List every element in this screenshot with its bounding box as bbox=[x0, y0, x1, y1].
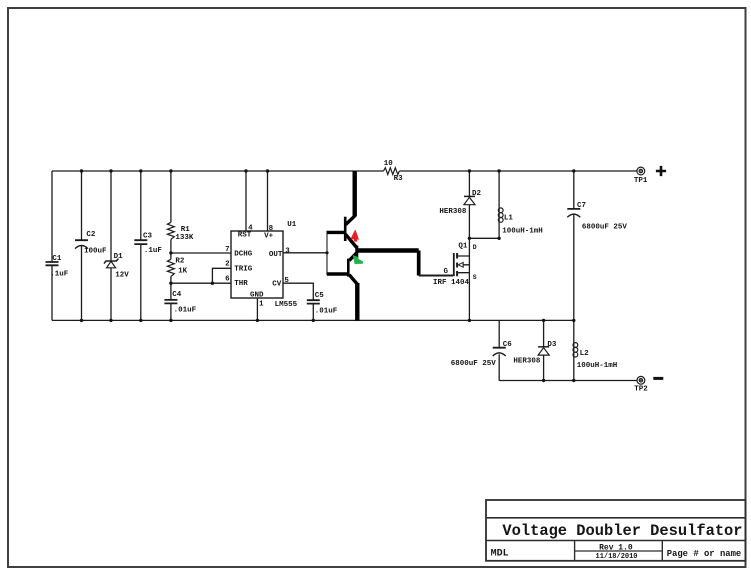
svg-text:Q1: Q1 bbox=[458, 242, 468, 250]
svg-text:RST: RST bbox=[238, 232, 252, 240]
svg-text:L2: L2 bbox=[580, 350, 590, 358]
svg-text:D3: D3 bbox=[547, 341, 557, 349]
svg-text:IRF 1404: IRF 1404 bbox=[433, 279, 470, 287]
svg-text:C7: C7 bbox=[577, 202, 586, 210]
svg-text:G: G bbox=[444, 268, 449, 276]
svg-text:3: 3 bbox=[285, 248, 290, 256]
svg-text:2: 2 bbox=[225, 260, 230, 268]
svg-text:TP2: TP2 bbox=[634, 386, 648, 394]
svg-text:U1: U1 bbox=[287, 221, 297, 229]
svg-text:1: 1 bbox=[259, 300, 264, 308]
svg-text:Rev 1.0: Rev 1.0 bbox=[599, 544, 633, 553]
svg-text:C2: C2 bbox=[86, 231, 96, 239]
svg-text:TP1: TP1 bbox=[634, 177, 648, 185]
svg-text:C3: C3 bbox=[143, 233, 153, 241]
svg-text:D1: D1 bbox=[114, 253, 124, 261]
svg-text:R2: R2 bbox=[175, 258, 185, 266]
svg-text:MDL: MDL bbox=[491, 548, 509, 559]
svg-text:12V: 12V bbox=[115, 271, 129, 279]
svg-text:C6: C6 bbox=[503, 341, 513, 349]
svg-text:6800uF 25V: 6800uF 25V bbox=[451, 360, 497, 368]
svg-text:L1: L1 bbox=[504, 215, 514, 223]
svg-text:C5: C5 bbox=[315, 292, 325, 300]
svg-text:.01uF: .01uF bbox=[315, 308, 338, 316]
svg-text:Page # or name: Page # or name bbox=[667, 549, 742, 559]
svg-text:GND: GND bbox=[250, 291, 264, 299]
svg-text:DCHG: DCHG bbox=[234, 250, 253, 258]
svg-text:6: 6 bbox=[225, 275, 230, 283]
svg-text:TRIG: TRIG bbox=[234, 265, 253, 273]
svg-text:7: 7 bbox=[225, 246, 230, 254]
svg-text:THR: THR bbox=[234, 280, 248, 288]
svg-text:.1uF: .1uF bbox=[50, 270, 69, 278]
svg-text:.1uF: .1uF bbox=[144, 247, 163, 255]
svg-text:5: 5 bbox=[284, 277, 289, 285]
svg-text:Voltage Doubler Desulfator: Voltage Doubler Desulfator bbox=[502, 522, 742, 540]
svg-text:10: 10 bbox=[384, 160, 394, 168]
svg-text:C1: C1 bbox=[52, 255, 62, 263]
svg-text:D2: D2 bbox=[472, 190, 482, 198]
svg-text:HER308: HER308 bbox=[439, 208, 467, 216]
svg-text:133K: 133K bbox=[175, 234, 194, 242]
svg-text:CV: CV bbox=[272, 281, 282, 289]
svg-text:.01uF: .01uF bbox=[174, 307, 197, 315]
svg-text:11/18/2010: 11/18/2010 bbox=[596, 553, 638, 561]
svg-text:100uF: 100uF bbox=[84, 248, 107, 256]
svg-text:C4: C4 bbox=[172, 291, 182, 299]
svg-text:100uH-1mH: 100uH-1mH bbox=[502, 228, 543, 236]
svg-text:100uH-1mH: 100uH-1mH bbox=[577, 362, 618, 370]
svg-text:1K: 1K bbox=[178, 268, 188, 276]
svg-text:HER308: HER308 bbox=[513, 357, 541, 365]
svg-text:LM555: LM555 bbox=[275, 301, 298, 309]
svg-text:D: D bbox=[473, 244, 477, 251]
svg-text:R1: R1 bbox=[181, 226, 191, 234]
svg-text:OUT: OUT bbox=[269, 251, 283, 259]
svg-text:6800uF 25V: 6800uF 25V bbox=[582, 224, 628, 232]
svg-text:S: S bbox=[473, 274, 477, 281]
svg-text:R3: R3 bbox=[394, 175, 404, 183]
svg-text:V+: V+ bbox=[264, 232, 274, 240]
